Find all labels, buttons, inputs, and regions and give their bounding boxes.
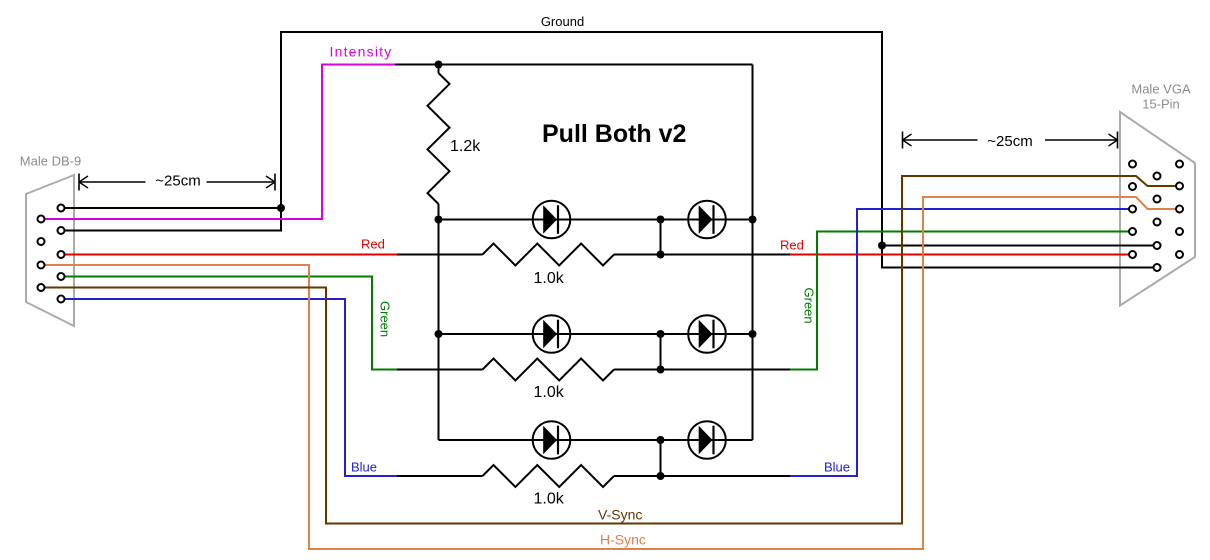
- svg-text:Blue: Blue: [351, 460, 377, 475]
- svg-text:1.0k: 1.0k: [534, 270, 565, 287]
- svg-text:Intensity: Intensity: [330, 44, 393, 60]
- svg-text:~25cm: ~25cm: [155, 173, 200, 190]
- svg-text:Green: Green: [378, 301, 393, 337]
- svg-text:1.2k: 1.2k: [450, 138, 481, 155]
- svg-text:V-Sync: V-Sync: [598, 507, 642, 523]
- svg-text:Red: Red: [361, 237, 385, 252]
- svg-text:Male DB-9: Male DB-9: [20, 154, 81, 169]
- svg-text:~25cm: ~25cm: [987, 133, 1032, 150]
- svg-text:H-Sync: H-Sync: [600, 532, 646, 548]
- svg-text:1.0k: 1.0k: [534, 491, 565, 508]
- svg-text:Green: Green: [802, 288, 817, 324]
- svg-text:1.0k: 1.0k: [534, 384, 565, 401]
- svg-text:Pull Both v2: Pull Both v2: [542, 120, 686, 148]
- svg-text:15-Pin: 15-Pin: [1142, 97, 1180, 112]
- svg-text:Blue: Blue: [824, 460, 850, 475]
- svg-text:Male VGA: Male VGA: [1131, 82, 1191, 97]
- svg-text:Red: Red: [780, 238, 804, 253]
- svg-text:Ground: Ground: [541, 14, 584, 29]
